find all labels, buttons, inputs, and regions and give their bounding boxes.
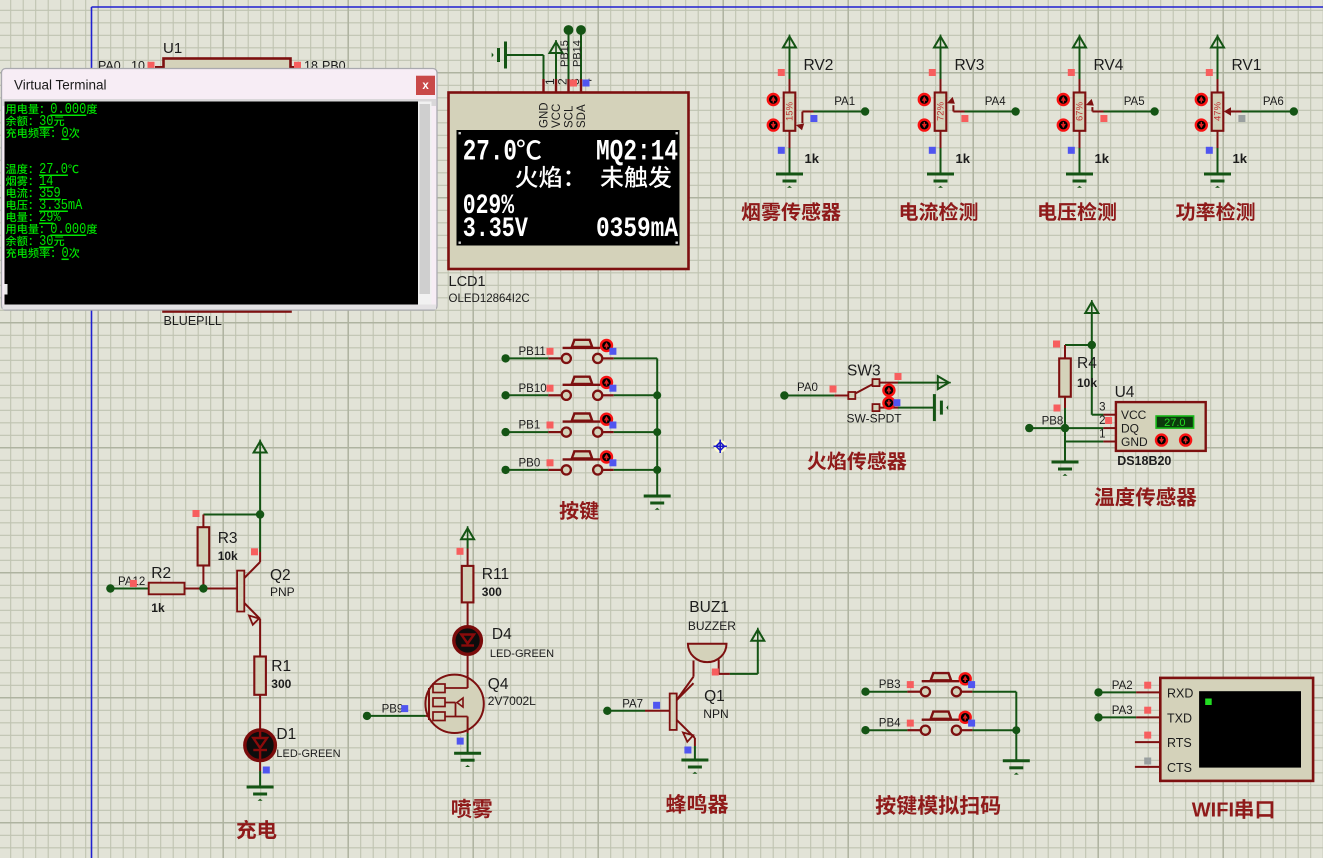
svg-text:DQ: DQ bbox=[1121, 422, 1139, 436]
svg-text:10k: 10k bbox=[218, 549, 238, 563]
svg-text:PB1: PB1 bbox=[519, 420, 541, 432]
svg-text:PNP: PNP bbox=[270, 585, 295, 599]
svg-text:PA4: PA4 bbox=[985, 96, 1006, 108]
svg-text:RXD: RXD bbox=[1167, 686, 1193, 700]
svg-text:2V7002L: 2V7002L bbox=[488, 694, 536, 708]
svg-text:RTS: RTS bbox=[1167, 736, 1192, 750]
svg-text:Q4: Q4 bbox=[488, 676, 509, 693]
svg-text:RV2: RV2 bbox=[804, 57, 834, 74]
svg-text:RV4: RV4 bbox=[1094, 57, 1124, 74]
svg-text:DS18B20: DS18B20 bbox=[1117, 454, 1171, 468]
svg-text:VCC: VCC bbox=[1121, 408, 1147, 422]
svg-text:PA5: PA5 bbox=[1124, 96, 1145, 108]
svg-text:PA1: PA1 bbox=[834, 96, 855, 108]
svg-text:0359mA: 0359mA bbox=[596, 214, 678, 245]
svg-text:PA2: PA2 bbox=[1112, 680, 1133, 692]
svg-text:67%: 67% bbox=[1075, 101, 1086, 121]
svg-text:10k: 10k bbox=[1077, 376, 1097, 390]
svg-text:47%: 47% bbox=[1213, 101, 1224, 121]
svg-text:PA3: PA3 bbox=[1112, 705, 1133, 717]
svg-text:WIFI: WIFI bbox=[1192, 800, 1234, 822]
svg-text:1k: 1k bbox=[1233, 151, 1248, 166]
svg-text:3: 3 bbox=[1099, 402, 1105, 414]
svg-text:RV1: RV1 bbox=[1232, 57, 1262, 74]
svg-text:27.0: 27.0 bbox=[1164, 417, 1185, 429]
svg-text:TXD: TXD bbox=[1167, 711, 1192, 725]
svg-text:300: 300 bbox=[271, 677, 291, 691]
svg-text:PB10: PB10 bbox=[519, 383, 547, 395]
svg-text:R1: R1 bbox=[271, 658, 291, 675]
svg-text:2: 2 bbox=[1099, 415, 1105, 427]
svg-text:1k: 1k bbox=[805, 151, 820, 166]
svg-text:D4: D4 bbox=[492, 626, 512, 643]
svg-text:BLUEPILL: BLUEPILL bbox=[164, 314, 222, 328]
svg-text:LED-GREEN: LED-GREEN bbox=[490, 648, 554, 660]
svg-text:PB15: PB15 bbox=[559, 40, 571, 67]
svg-text:GND: GND bbox=[539, 102, 551, 128]
svg-text:CTS: CTS bbox=[1167, 761, 1192, 775]
svg-text:300: 300 bbox=[482, 585, 502, 599]
svg-text:R3: R3 bbox=[218, 530, 238, 547]
svg-text:PB9: PB9 bbox=[382, 704, 404, 716]
svg-text:1k: 1k bbox=[956, 151, 971, 166]
svg-text:PB14: PB14 bbox=[572, 40, 584, 67]
svg-text:27.0: 27.0 bbox=[463, 136, 517, 170]
svg-text:1k: 1k bbox=[151, 601, 165, 615]
svg-text:NPN: NPN bbox=[703, 707, 728, 721]
svg-text:BUZZER: BUZZER bbox=[688, 619, 736, 633]
svg-text:PA6: PA6 bbox=[1263, 96, 1284, 108]
svg-text:U1: U1 bbox=[163, 40, 182, 57]
svg-text:Virtual Terminal: Virtual Terminal bbox=[14, 78, 107, 93]
svg-text:OLED12864I2C: OLED12864I2C bbox=[449, 293, 530, 305]
svg-text:D1: D1 bbox=[276, 726, 296, 743]
svg-text:GND: GND bbox=[1121, 435, 1148, 449]
svg-text:SDA: SDA bbox=[576, 104, 588, 128]
svg-text:SW3: SW3 bbox=[847, 363, 881, 380]
svg-text:15%: 15% bbox=[785, 101, 796, 121]
svg-text:PB8: PB8 bbox=[1042, 416, 1064, 428]
svg-text:mA: mA bbox=[68, 198, 83, 214]
svg-text:LED-GREEN: LED-GREEN bbox=[276, 748, 340, 760]
svg-text:PA0: PA0 bbox=[797, 382, 818, 394]
svg-text:BUZ1: BUZ1 bbox=[689, 599, 729, 616]
svg-text:RV3: RV3 bbox=[955, 57, 985, 74]
svg-text:SW-SPDT: SW-SPDT bbox=[847, 412, 903, 426]
svg-text:R11: R11 bbox=[482, 566, 509, 583]
svg-text:PB0: PB0 bbox=[519, 457, 541, 469]
svg-text:LCD1: LCD1 bbox=[449, 274, 486, 290]
svg-text:PB3: PB3 bbox=[879, 679, 901, 691]
svg-text:72%: 72% bbox=[936, 101, 947, 121]
svg-text:PB4: PB4 bbox=[879, 718, 901, 730]
svg-text:SCL: SCL bbox=[564, 105, 576, 128]
svg-text:Q2: Q2 bbox=[270, 567, 291, 584]
svg-text:1: 1 bbox=[1099, 429, 1105, 441]
svg-text:MQ2:14: MQ2:14 bbox=[596, 136, 678, 170]
svg-text:3.35V: 3.35V bbox=[463, 214, 528, 245]
svg-text:VCC: VCC bbox=[551, 104, 563, 128]
svg-text:x: x bbox=[422, 80, 429, 92]
svg-text:PB11: PB11 bbox=[519, 346, 546, 358]
svg-text:1k: 1k bbox=[1095, 151, 1110, 166]
svg-text:U4: U4 bbox=[1115, 384, 1135, 401]
svg-text:Q1: Q1 bbox=[704, 688, 725, 705]
svg-text:R4: R4 bbox=[1077, 355, 1097, 372]
svg-text:PA7: PA7 bbox=[622, 698, 643, 710]
svg-text:R2: R2 bbox=[151, 565, 171, 582]
